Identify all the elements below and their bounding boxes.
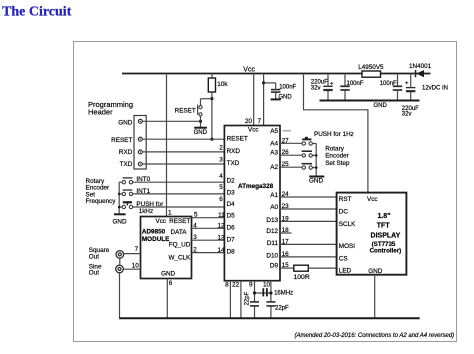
- svg-text:D6: D6: [227, 225, 236, 232]
- svg-text:22pF: 22pF: [275, 306, 289, 312]
- svg-text:GND: GND: [368, 268, 383, 275]
- svg-text:32v: 32v: [402, 112, 412, 118]
- svg-text:INT0: INT0: [136, 176, 150, 183]
- svg-text:DC: DC: [339, 208, 349, 215]
- svg-text:TXD: TXD: [227, 160, 240, 167]
- svg-text:GND: GND: [278, 94, 292, 100]
- svg-text:20: 20: [245, 118, 253, 125]
- svg-text:D5: D5: [227, 213, 236, 220]
- svg-text:23: 23: [282, 203, 290, 210]
- svg-text:Out: Out: [89, 253, 99, 260]
- svg-text:100nF: 100nF: [279, 84, 296, 90]
- svg-text:RXD: RXD: [119, 149, 133, 156]
- svg-text:10k: 10k: [217, 81, 228, 88]
- svg-text:D4: D4: [227, 201, 236, 208]
- svg-text:6: 6: [169, 280, 173, 287]
- svg-text:4: 4: [219, 173, 223, 180]
- svg-text:9: 9: [249, 281, 253, 288]
- svg-text:5: 5: [219, 184, 223, 191]
- svg-text:(Amended 20-03-2016: Connectio: (Amended 20-03-2016: Connections to A2 a…: [295, 333, 455, 339]
- svg-text:Header: Header: [88, 107, 113, 116]
- svg-text:GND: GND: [194, 130, 208, 136]
- svg-text:DATA: DATA: [171, 229, 188, 236]
- svg-text:RESET: RESET: [175, 108, 196, 115]
- svg-text:1.8": 1.8": [377, 213, 390, 220]
- svg-text:D3: D3: [227, 189, 236, 196]
- svg-text:27: 27: [282, 137, 290, 144]
- svg-text:GND: GND: [309, 178, 324, 185]
- svg-text:Out: Out: [89, 270, 99, 277]
- svg-text:SCLK: SCLK: [339, 221, 356, 228]
- svg-text:10: 10: [263, 281, 271, 288]
- svg-text:Rotary: Rotary: [325, 145, 345, 152]
- svg-text:100R: 100R: [294, 274, 310, 281]
- svg-text:INT1: INT1: [136, 188, 150, 195]
- svg-text:12vDC IN: 12vDC IN: [422, 85, 448, 91]
- svg-text:GND: GND: [161, 270, 176, 277]
- svg-text:FQ_UD: FQ_UD: [169, 242, 191, 249]
- svg-text:TXD: TXD: [120, 161, 133, 168]
- svg-text:A0: A0: [270, 204, 278, 211]
- svg-text:220uF: 220uF: [311, 80, 328, 86]
- svg-text:5: 5: [194, 212, 198, 219]
- svg-text:A2: A2: [270, 164, 278, 171]
- svg-text:10: 10: [132, 262, 140, 269]
- svg-text:ATmega328: ATmega328: [238, 183, 274, 190]
- svg-text:19: 19: [282, 216, 290, 223]
- svg-text:TFT: TFT: [377, 223, 391, 230]
- svg-text:MODULE: MODULE: [142, 236, 170, 243]
- svg-text:Controller): Controller): [370, 248, 402, 255]
- svg-text:D13: D13: [266, 217, 278, 224]
- svg-text:CS: CS: [339, 255, 348, 262]
- svg-text:D10: D10: [266, 253, 278, 260]
- svg-text:D12: D12: [266, 228, 278, 235]
- svg-text:LED: LED: [339, 268, 352, 275]
- svg-text:Vcc: Vcc: [248, 126, 259, 133]
- svg-text:MOSI: MOSI: [339, 243, 355, 250]
- svg-text:1N4001: 1N4001: [409, 63, 432, 70]
- svg-text:RESET: RESET: [227, 135, 248, 142]
- svg-text:7: 7: [135, 246, 139, 253]
- svg-text:+: +: [405, 81, 409, 87]
- svg-text:26: 26: [282, 149, 290, 156]
- svg-text:D2: D2: [227, 177, 236, 184]
- svg-text:8: 8: [225, 281, 229, 288]
- svg-text:L4950V5: L4950V5: [358, 64, 384, 71]
- svg-text:6: 6: [219, 196, 223, 203]
- svg-text:17: 17: [282, 239, 290, 246]
- svg-text:DISPLAY: DISPLAY: [371, 233, 401, 240]
- svg-text:A3: A3: [270, 150, 278, 157]
- svg-text:24: 24: [282, 191, 290, 198]
- svg-text:A4: A4: [270, 141, 278, 148]
- svg-text:3: 3: [219, 157, 223, 164]
- svg-text:7: 7: [257, 118, 261, 125]
- svg-text:D7: D7: [227, 236, 236, 243]
- svg-text:32v: 32v: [311, 86, 321, 92]
- svg-text:4: 4: [193, 222, 197, 229]
- svg-text:16MHz: 16MHz: [274, 291, 293, 297]
- svg-text:25: 25: [282, 161, 290, 168]
- svg-text:Set Step: Set Step: [325, 160, 350, 167]
- svg-text:The Circuit: The Circuit: [2, 5, 72, 20]
- svg-text:16: 16: [282, 251, 290, 258]
- svg-text:Vcc: Vcc: [367, 196, 378, 203]
- svg-text:2: 2: [219, 144, 223, 151]
- svg-text:1: 1: [168, 209, 172, 216]
- svg-text:15: 15: [282, 262, 290, 269]
- svg-text:RESET: RESET: [111, 137, 132, 144]
- svg-text:GND: GND: [374, 103, 388, 109]
- svg-text:Vcc: Vcc: [156, 218, 167, 225]
- svg-text:D11: D11: [267, 240, 279, 247]
- svg-text:3: 3: [193, 234, 197, 241]
- svg-text:A1: A1: [270, 192, 278, 199]
- svg-text:PUSH for 1Hz: PUSH for 1Hz: [314, 131, 354, 138]
- svg-text:22: 22: [232, 281, 240, 288]
- svg-text:GND: GND: [118, 119, 133, 126]
- svg-text:AD9850: AD9850: [142, 229, 166, 236]
- svg-text:W_CLK: W_CLK: [168, 254, 191, 261]
- svg-text:Encoder: Encoder: [325, 153, 349, 160]
- svg-text:GND: GND: [112, 219, 127, 226]
- svg-text:A5: A5: [270, 128, 278, 135]
- svg-text:2: 2: [193, 247, 197, 254]
- svg-text:1kHz: 1kHz: [139, 208, 153, 215]
- svg-text:RESET: RESET: [169, 218, 190, 225]
- svg-text:100nF: 100nF: [380, 81, 397, 87]
- svg-text:D8: D8: [227, 249, 236, 256]
- svg-text:RXD: RXD: [227, 148, 241, 155]
- svg-text:18: 18: [282, 227, 290, 234]
- svg-text:22pF: 22pF: [244, 291, 250, 305]
- svg-text:Frequency: Frequency: [86, 198, 117, 205]
- svg-text:+: +: [330, 81, 334, 87]
- svg-text:D9: D9: [270, 262, 279, 269]
- svg-text:RST: RST: [339, 196, 352, 203]
- svg-text:100nF: 100nF: [347, 81, 364, 87]
- svg-text:Vcc: Vcc: [243, 67, 255, 74]
